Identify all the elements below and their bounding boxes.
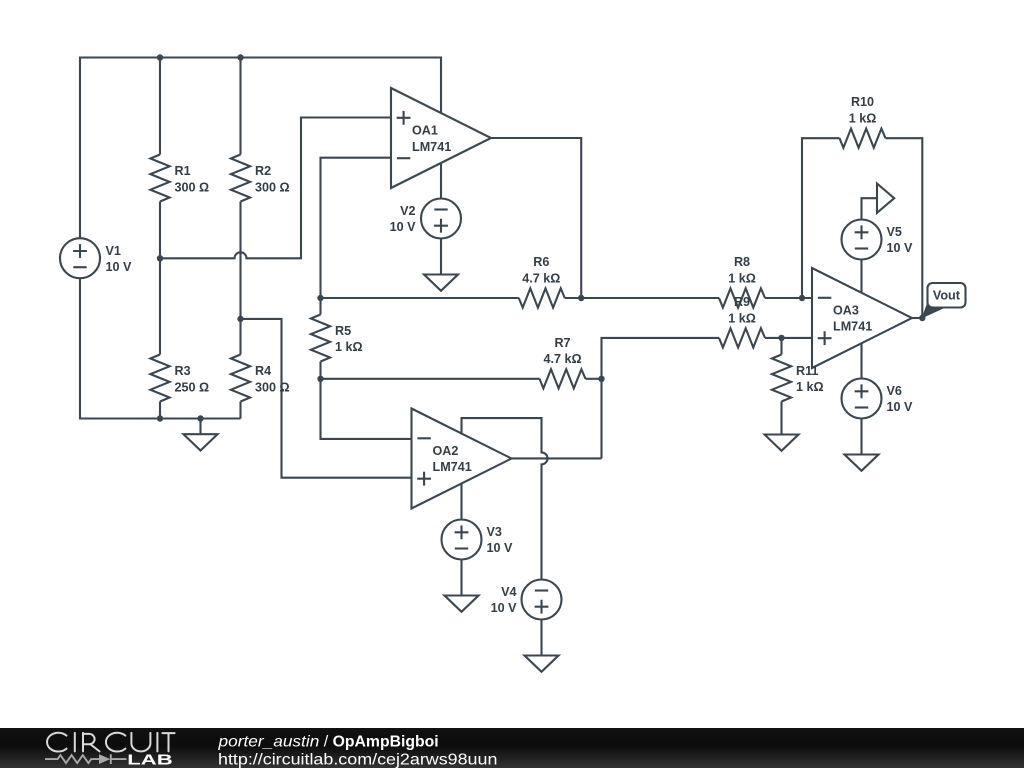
svg-text:10 V: 10 V	[390, 220, 417, 234]
svg-text:OA2: OA2	[433, 444, 459, 458]
svg-text:4.7 kΩ: 4.7 kΩ	[522, 271, 560, 285]
svg-text:R8: R8	[734, 255, 750, 269]
svg-text:1 kΩ: 1 kΩ	[728, 271, 756, 285]
svg-text:1 kΩ: 1 kΩ	[335, 340, 363, 354]
svg-text:R7: R7	[554, 336, 570, 350]
svg-text:1 kΩ: 1 kΩ	[849, 112, 877, 126]
svg-text:V3: V3	[487, 525, 502, 539]
svg-text:300 Ω: 300 Ω	[175, 180, 210, 194]
svg-text:R2: R2	[255, 164, 271, 178]
svg-text:1 kΩ: 1 kΩ	[728, 311, 756, 325]
svg-text:R4: R4	[255, 364, 271, 378]
svg-text:10 V: 10 V	[887, 400, 914, 414]
svg-text:10 V: 10 V	[487, 541, 514, 555]
svg-text:R5: R5	[335, 324, 351, 338]
svg-text:R1: R1	[175, 164, 191, 178]
svg-text:LM741: LM741	[433, 460, 472, 474]
svg-text:250 Ω: 250 Ω	[175, 380, 210, 394]
svg-text:1 kΩ: 1 kΩ	[796, 380, 824, 394]
svg-text:R6: R6	[533, 255, 549, 269]
svg-text:300 Ω: 300 Ω	[255, 180, 290, 194]
svg-text:V5: V5	[887, 225, 902, 239]
svg-text:OA3: OA3	[833, 303, 859, 317]
svg-text:porter_austin / OpAmpBigboi: porter_austin / OpAmpBigboi	[217, 734, 438, 751]
svg-text:R11: R11	[796, 364, 818, 378]
svg-text:10 V: 10 V	[491, 601, 518, 615]
svg-text:10 V: 10 V	[106, 260, 133, 274]
svg-text:10 V: 10 V	[887, 241, 914, 255]
svg-text:V4: V4	[501, 585, 516, 599]
svg-text:4.7 kΩ: 4.7 kΩ	[543, 352, 581, 366]
svg-text:R3: R3	[175, 364, 191, 378]
svg-text:R9: R9	[734, 295, 750, 309]
svg-text:V2: V2	[400, 204, 415, 218]
svg-text:V6: V6	[887, 384, 902, 398]
svg-text:LAB: LAB	[127, 752, 173, 768]
svg-text:300 Ω: 300 Ω	[255, 380, 290, 394]
svg-text:R10: R10	[851, 95, 874, 109]
svg-text:LM741: LM741	[412, 140, 451, 154]
svg-text:V1: V1	[106, 244, 121, 258]
svg-text:OA1: OA1	[412, 123, 438, 137]
svg-text:LM741: LM741	[833, 320, 872, 334]
svg-text:Vout: Vout	[933, 289, 961, 303]
svg-text:http://circuitlab.com/cej2arws: http://circuitlab.com/cej2arws98uun	[218, 751, 497, 768]
